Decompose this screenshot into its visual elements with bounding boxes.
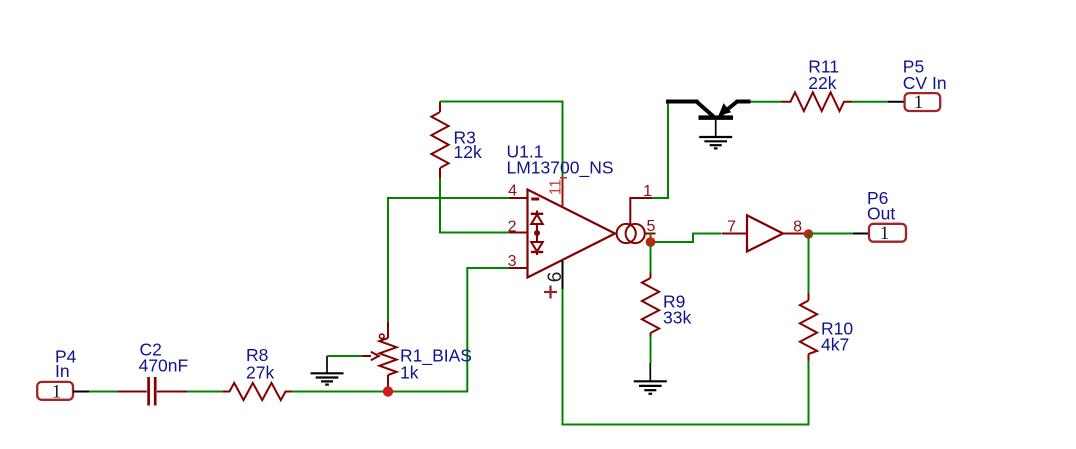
svg-text:2: 2 [508, 218, 517, 235]
junction (OTA output) [646, 237, 656, 247]
svg-text:CV In: CV In [903, 73, 947, 93]
svg-text:6: 6 [545, 272, 566, 283]
svg-text:8: 8 [793, 219, 802, 236]
svg-text:4k7: 4k7 [821, 335, 849, 355]
wire C2 to R8 [187, 391, 223, 393]
wire junction to R10 [808, 234, 810, 294]
connector P4 [37, 346, 89, 402]
wire pin1 to transistor [652, 102, 668, 199]
svg-text:1: 1 [643, 183, 652, 200]
svg-text:In: In [55, 361, 70, 381]
resistor R11 [782, 56, 853, 111]
wire P4 to C2 [89, 391, 117, 393]
ground (transistor base) [699, 137, 732, 148]
wire wiper [327, 355, 362, 357]
ground (trimmer wiper) [311, 356, 344, 385]
svg-text:1: 1 [880, 223, 890, 244]
svg-text:11: 11 [547, 179, 564, 195]
svg-text:12k: 12k [454, 142, 482, 162]
svg-text:3: 3 [508, 253, 517, 270]
svg-text:33k: 33k [663, 307, 691, 327]
wire buffer to P6 [809, 233, 854, 235]
capacitor C2 [117, 339, 188, 405]
wire R9 to ground [650, 337, 652, 364]
connector P6 [853, 188, 906, 244]
svg-text:Out: Out [867, 203, 895, 223]
transistor (PNP, grounded base) [666, 102, 751, 137]
ground (R9) [634, 363, 667, 394]
pin 11 [547, 178, 567, 207]
pin 8 [783, 219, 806, 236]
wire top rail R3 to pin 11 [440, 102, 563, 178]
pin 3 [508, 253, 528, 270]
wire R8 to pin3 riser (with junction at R1_BIAS) [292, 268, 509, 392]
resistor R3 [431, 102, 482, 179]
resistor R8 [223, 345, 293, 400]
pin 4 [508, 183, 527, 200]
linearizing diodes [536, 211, 538, 214]
resistor R9 [642, 273, 692, 337]
pin 1 [630, 183, 652, 225]
svg-text:27k: 27k [246, 362, 274, 382]
pin 7 [722, 219, 747, 236]
connector P5 [888, 56, 947, 113]
svg-text:1: 1 [914, 92, 924, 113]
svg-text:4: 4 [508, 183, 517, 200]
wire transistor to R11 [751, 101, 782, 103]
wire R11 to P5 [852, 101, 888, 103]
svg-text:5: 5 [647, 218, 656, 235]
wire R10 bottom rail to op-amp pin 6 [563, 289, 809, 425]
wire R1_BIAS to pin 4 row [388, 198, 509, 322]
output current-source circles [617, 224, 636, 243]
junction (buffer output) [804, 229, 813, 238]
wire junction to R9 [650, 242, 652, 273]
junction (R1_BIAS bottom) [383, 386, 393, 396]
op-amp U1.1 LM13700_NS [507, 141, 645, 277]
svg-text:1: 1 [52, 382, 62, 403]
wire pin5 jog to buffer [651, 234, 722, 243]
buffer amplifier (U1 output buffer) [747, 215, 783, 251]
svg-text:1k: 1k [400, 363, 419, 383]
pin 6 [544, 261, 566, 299]
potentiometer R1_BIAS [362, 322, 472, 392]
pin 5 [645, 218, 656, 235]
svg-text:22k: 22k [808, 73, 836, 93]
svg-text:470nF: 470nF [139, 355, 189, 375]
pin 2 [508, 218, 528, 235]
svg-text:LM13700_NS: LM13700_NS [507, 157, 614, 178]
resistor R10 [800, 294, 853, 361]
wire R3 bottom to pin 2 [440, 178, 509, 233]
minus marker [531, 198, 539, 201]
svg-text:7: 7 [727, 219, 736, 236]
